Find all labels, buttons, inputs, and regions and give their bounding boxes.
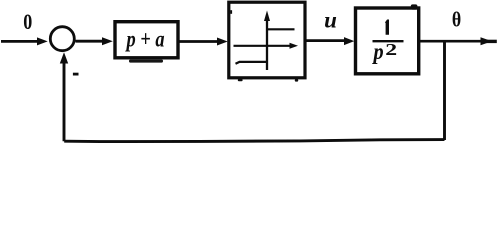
label: numerator 1	[385, 20, 389, 35]
relay: horizontal axis with right arrow	[234, 43, 299, 49]
artifact: blob at top-right corner of 1/p2 block	[411, 4, 418, 9]
wire: relay output u to 1/p2 block	[307, 37, 355, 45]
wire: feedback vertical up into summing junction	[60, 52, 68, 141]
svg-text:θ: θ	[452, 9, 461, 32]
fraction bar	[373, 40, 404, 42]
block: relay nonlinearity	[229, 2, 305, 78]
wire: feedback bottom run	[64, 140, 444, 142]
block: double integrator 1/p^2	[356, 8, 419, 74]
artifact: scan smudge under p+a block	[129, 60, 163, 63]
relay: upper output level line	[267, 28, 295, 30]
block: compensator p + a	[115, 22, 178, 58]
label: minus sign on feedback input	[73, 73, 79, 76]
wire: summing junction to p+a block	[76, 37, 113, 45]
svg-text:p + a: p + a	[125, 25, 165, 52]
relay: lower output level line	[236, 62, 268, 64]
node: summing junction	[50, 27, 74, 51]
artifact: nubs under relay bottom edge	[238, 79, 243, 81]
wire: reference input into summing junction	[1, 37, 48, 45]
wire: p+a block to relay block	[180, 38, 228, 46]
wire: output theta	[419, 37, 497, 45]
svg-text:u: u	[324, 8, 337, 33]
svg-text:p: p	[372, 39, 384, 64]
relay: vertical axis with up arrow	[264, 11, 270, 71]
svg-text:2: 2	[385, 41, 397, 59]
artifact: nub on relay left edge	[230, 10, 232, 14]
svg-text:0: 0	[23, 11, 32, 35]
wire: feedback tap vertical down on right	[443, 40, 446, 140]
